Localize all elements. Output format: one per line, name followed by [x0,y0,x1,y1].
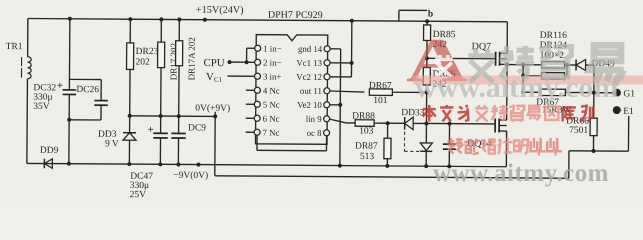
pin 9 circle [324,116,330,122]
wire E1 loop [621,109,629,111]
wire DQ7 source down [506,64,508,120]
junction rail-DR17A [177,18,181,22]
wire DR17A bottom lead [178,66,180,116]
wire node P horizontal [507,64,523,66]
wire node N down [425,92,427,123]
resistor DR88 103 [355,120,374,127]
pin 8 circle [324,130,330,136]
resistor DR66 7501 [593,93,595,118]
wire pin1 stub [247,47,255,49]
wire DC26 top lead [100,80,102,101]
resistor DR17 [160,19,162,42]
resistor DR67 101 [369,89,392,96]
wire 0V return rail [215,176,569,178]
junction rail1-DC47 [158,162,162,166]
pin 1 circle [255,45,261,51]
transistor DQ7 [495,52,497,66]
zener DD3 [129,116,131,133]
wire DC32-DC26 top link [69,78,101,80]
junction 0V corner [213,114,217,118]
junction rail1 label anchor [196,163,200,167]
junction rail1-DR87 [385,164,389,168]
watermark text row2 [423,105,436,122]
junction rail-DR23 [128,17,132,21]
pin 7 circle [254,129,260,135]
junction rail1-cap [447,164,451,168]
junction 0V-DR17A-DC9 [177,114,181,118]
wire DC32 top lead [68,19,70,90]
junction pin1-pin2 [245,60,249,64]
capacitor DC9 [178,116,180,133]
pin 13 circle [324,60,330,66]
transformer TR1 [27,18,29,56]
op-amp U1 DPH7 PC929 body [256,35,328,145]
capacitor DC26 [94,100,107,102]
wire DR88 to DD33 [374,122,404,124]
diode DD9 [43,159,45,168]
wire DD33 to node N2 [414,122,427,124]
junction gate-cap [448,122,452,126]
wire DC26-DC32 bottom link [69,119,101,121]
watermark text row3 [448,138,463,154]
wire pin13 to +15V rail [330,62,351,64]
wire DD49 to G1 node [586,64,594,66]
resistor DR86 [423,67,430,85]
resistor DR67 15R3W [523,91,540,93]
wire DR85-DR86 node M [426,40,428,67]
terminal E1 [621,103,640,116]
junction rail-pin13 [350,19,354,23]
junction DC32 lead [67,118,71,122]
watermark band [413,76,643,85]
junction node P top [521,63,525,67]
pin 5 circle [254,101,260,107]
wire pin5 stub [246,103,254,105]
junction resistor pair right [565,63,569,67]
diode DD49 [575,60,577,71]
junction rail label anchor [203,18,207,22]
pin 6 circle [254,115,260,121]
node CPU [228,60,232,64]
pin 2 circle [255,59,261,65]
junction node P bottom [521,90,525,94]
junction rail1-DD3 [127,162,131,166]
wire CPU to pin2 [230,61,254,63]
wire DC32 bottom lead [68,94,70,163]
wire dashed link DD33-clamp [403,126,405,151]
pin 10 circle [324,102,330,108]
wire pin11 out [330,91,365,92]
junction rail1-pin14 [338,164,342,168]
wire node N2 to DQ14 gate [426,122,495,124]
diode clamp (dashed-connected) [420,143,432,151]
resistor DR124 [523,75,541,77]
junction node M gate DQ7 [425,56,429,60]
wire rail down to DQ7 drain [506,22,508,53]
junction node P mid [521,74,525,78]
resistor DR116 [523,64,541,66]
junction pin10-pin14 drop [338,103,342,107]
pin 11 circle [324,88,330,94]
junction node N2 DD33 [424,121,428,125]
wire 0V vertical drop [214,116,216,175]
capacitor DC32 [63,89,76,91]
wire DR86 bottom [426,85,428,92]
junction rail-DR17 [159,17,163,21]
capacitor gate snubber [448,124,450,144]
wire pin9 lin [330,119,347,123]
junction rail-DR85 (b) [425,19,429,23]
junction E1 wire DR66 [591,149,595,153]
capacitor DC47 [160,116,162,133]
junction pin13 [350,61,354,65]
wire node P vertical [522,65,524,92]
wire pin7 stub [246,131,254,133]
wire parallel resistors right join [565,64,567,66]
resistor DR23 [129,19,131,43]
wire DQ14 source to -9V rail [505,131,507,167]
pin 14 circle [324,46,330,52]
transistor DQ14 [494,118,496,132]
watermark text row1 [468,49,494,82]
wire pin14 to -9V rail [330,48,340,50]
wire pin6 stub [246,117,254,119]
wire +15V top rail [28,18,507,21]
junction node N [425,90,429,94]
wire -9V bottom rail [27,163,506,166]
wire TR1 bottom lead [26,79,29,164]
diode DD33 [404,117,406,129]
wire DR67 to node N [392,91,426,93]
junction 0V-DR17-DC47 [159,114,163,118]
pin 12 circle [324,74,330,80]
wire pin7-pin8 tie [256,135,258,150]
pin 4 circle [254,87,260,93]
junction rail-DC32 [68,17,72,21]
junction rail1-clamp diode [424,164,428,168]
junction DQ7 source node P [505,63,509,67]
junction 0V-DR23-DD3 [128,114,132,118]
wire pin12 link [330,76,351,78]
junction G1 node [592,91,596,95]
node b hook [398,10,400,21]
wire node N2 down to clamp diode [425,123,427,142]
resistor DR87 513 [387,123,389,138]
wire node M to DQ7 gate [427,57,496,59]
junction rail1-DC9 [176,162,180,166]
wire to DD49 [567,64,576,66]
terminal G1 [613,89,621,97]
pin 3 circle [254,73,260,79]
wire DC26 bottom lead [100,105,102,120]
wire DR17 bottom lead [160,68,162,116]
junction rail1-DC32 [67,162,71,166]
wire pin4 stub [246,89,254,91]
wire Vc1 to pin3 [227,75,253,77]
resistor DR17A [178,20,180,41]
wire pin10 stub [330,104,340,106]
junction DR87 top [386,121,390,125]
wire 0V net [130,115,215,118]
wire DR23 bottom lead [129,69,131,115]
